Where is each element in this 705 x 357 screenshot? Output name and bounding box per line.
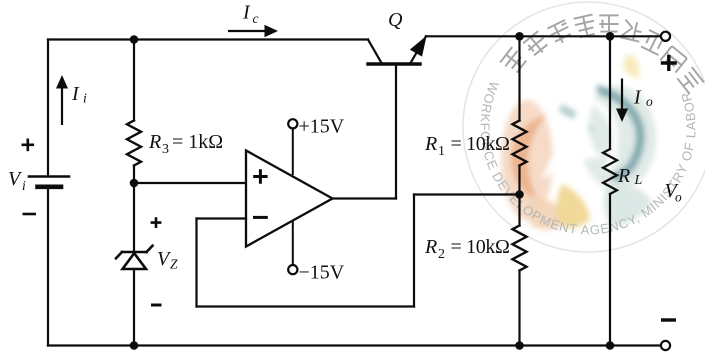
arrow Ic	[228, 30, 267, 32]
wire: left rail vertical (battery top)	[47, 40, 49, 177]
wire: feedback right vertical	[413, 195, 415, 307]
wire: junction to feedback	[414, 193, 520, 195]
wire: op-amp output	[333, 197, 397, 199]
svg-text:= 10kΩ: = 10kΩ	[451, 236, 510, 258]
swirl pale teal field	[580, 86, 656, 190]
op-amp +15V stem	[292, 129, 294, 175]
swirl pale cyan petal	[604, 182, 652, 227]
wire: battery bottom vertical	[47, 187, 49, 346]
wire: R2 top lead	[518, 195, 520, 226]
node: top rail / R3	[130, 35, 139, 44]
label - battery	[23, 213, 37, 216]
wire: base lead Q	[395, 64, 397, 199]
label + battery	[22, 139, 35, 152]
svg-text:= 1kΩ: = 1kΩ	[172, 131, 223, 153]
svg-text:o: o	[675, 190, 682, 205]
terminal: output -	[661, 341, 670, 350]
outer faint circle	[463, 2, 705, 252]
svg-text:+15V: +15V	[299, 115, 345, 137]
white bird negative space	[542, 88, 602, 180]
wire: minus input wire	[197, 217, 247, 219]
svg-text:I: I	[71, 83, 80, 105]
op-amp + input symbol	[253, 169, 267, 183]
svg-text:2: 2	[438, 247, 445, 262]
transistor Q base bar	[368, 62, 420, 65]
swirl yellow wedge	[556, 184, 590, 228]
swirl teal accent crescent	[596, 89, 640, 178]
swirl peach blob	[528, 195, 568, 230]
svg-text:R: R	[617, 165, 630, 187]
node: zener / bottom rail	[130, 341, 139, 350]
svg-text:I: I	[242, 2, 251, 24]
svg-text:I: I	[633, 87, 642, 109]
op-amp U1 triangle	[246, 151, 333, 247]
op-amp - input symbol	[253, 216, 268, 219]
node: R1/R2 junction	[515, 190, 524, 199]
swirl teal band	[560, 108, 590, 132]
svg-text:R: R	[148, 131, 161, 153]
wire: top-right rail	[426, 35, 661, 37]
svg-text:i: i	[22, 178, 26, 193]
label + zener	[151, 217, 162, 228]
watermark seal	[463, 2, 705, 252]
resistor R3	[127, 121, 141, 166]
wire: R1 top lead	[518, 36, 520, 120]
svg-text:Z: Z	[170, 257, 178, 272]
svg-text:= 10kΩ: = 10kΩ	[451, 133, 510, 155]
wire: RL bottom lead	[609, 194, 611, 346]
wire: feedback left vertical	[195, 219, 197, 307]
battery Vi long plate	[29, 175, 69, 178]
node: RL bottom	[606, 341, 615, 350]
resistor RL	[603, 149, 617, 194]
op-amp -15V stem	[292, 222, 294, 265]
swirl orange accent crescent	[511, 115, 547, 203]
svg-text:3: 3	[162, 142, 169, 157]
terminal: -15V	[288, 265, 297, 274]
svg-text:o: o	[646, 94, 653, 109]
svg-text:Q: Q	[388, 9, 403, 31]
transistor Q emitter arrow	[411, 37, 426, 56]
wire: R1 bottom lead	[518, 166, 520, 195]
wire: R3 bottom lead	[133, 166, 135, 184]
wire: plus input wire	[134, 182, 246, 184]
svg-text:c: c	[253, 11, 259, 26]
arrow Io	[621, 79, 623, 111]
swirl pale orange field	[501, 100, 553, 220]
node: R1 top	[515, 32, 524, 41]
svg-text:R: R	[424, 133, 437, 155]
wire: zener bottom lead	[133, 269, 135, 346]
label - zener	[151, 304, 162, 307]
terminal: +15V	[288, 119, 297, 128]
wire: R3 top lead	[133, 40, 135, 121]
resistor R1	[513, 121, 527, 166]
battery Vi short plate	[38, 185, 62, 190]
svg-text:i: i	[83, 91, 87, 106]
label + output	[661, 55, 677, 71]
node: R2 bottom	[515, 341, 524, 350]
swirl pale yellow top patch	[623, 54, 640, 79]
resistor R2	[513, 226, 527, 271]
wire: R2 bottom lead	[518, 271, 520, 346]
node: RL top	[606, 32, 615, 41]
wire: top-left rail	[48, 38, 368, 40]
svg-text:1: 1	[438, 144, 445, 159]
terminal: output +	[661, 32, 670, 41]
wire: zener top lead	[133, 183, 135, 252]
svg-text:L: L	[634, 173, 643, 188]
zener diode VZ	[116, 246, 153, 269]
terminal circles	[288, 32, 670, 350]
wire: RL top lead	[609, 36, 611, 149]
transistor Q collector slant	[368, 40, 382, 64]
node: R3 / zener / +input	[130, 179, 139, 188]
chinese glyph blocks arc	[500, 14, 704, 93]
arrow Ii	[61, 87, 63, 125]
label - output	[661, 318, 676, 321]
svg-text:R: R	[424, 236, 437, 258]
wire: feedback bottom horizontal	[197, 305, 415, 307]
wire: bottom rail	[48, 344, 661, 346]
transistor Q emitter slant	[411, 36, 427, 63]
svg-text:−15V: −15V	[299, 261, 345, 283]
